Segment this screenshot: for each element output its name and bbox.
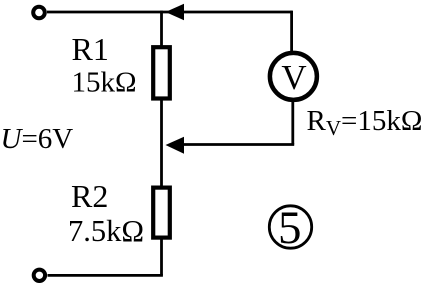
- svg-text:V: V: [281, 58, 306, 97]
- svg-text:7.5kΩ: 7.5kΩ: [68, 214, 144, 248]
- wire: main vertical middle segment (R1 to R2): [160, 100, 163, 187]
- svg-text:5: 5: [278, 202, 302, 254]
- voltmeter U1 circle: [270, 53, 317, 100]
- terminal (bottom left): [34, 270, 45, 281]
- resistor R1: [153, 47, 170, 98]
- arrowhead at top node: [166, 4, 185, 20]
- wire: main vertical bottom segment (R2 to bottom corner): [160, 239, 163, 276]
- terminal (top left): [33, 7, 45, 19]
- wire: mid horizontal from corner left to arrow: [182, 143, 294, 146]
- wire: main vertical top segment (junction to R1): [160, 11, 163, 46]
- svg-text:15kΩ: 15kΩ: [72, 67, 137, 99]
- figure number circle 5: [269, 206, 311, 248]
- wire: bottom horizontal from corner to bottom terminal: [48, 274, 163, 277]
- svg-text:R1: R1: [72, 31, 109, 67]
- svg-text:U=6V: U=6V: [1, 123, 74, 155]
- svg-text:RV=15kΩ: RV=15kΩ: [307, 105, 423, 140]
- wire: voltmeter bottom down to mid corner: [291, 101, 294, 145]
- wire: top horizontal from terminal to top-right corner: [47, 11, 292, 14]
- wire: right vertical from top corner down to voltmeter top: [290, 11, 293, 52]
- resistor R2: [153, 188, 170, 238]
- svg-text:R2: R2: [71, 178, 108, 214]
- arrowhead at middle node: [166, 137, 185, 154]
